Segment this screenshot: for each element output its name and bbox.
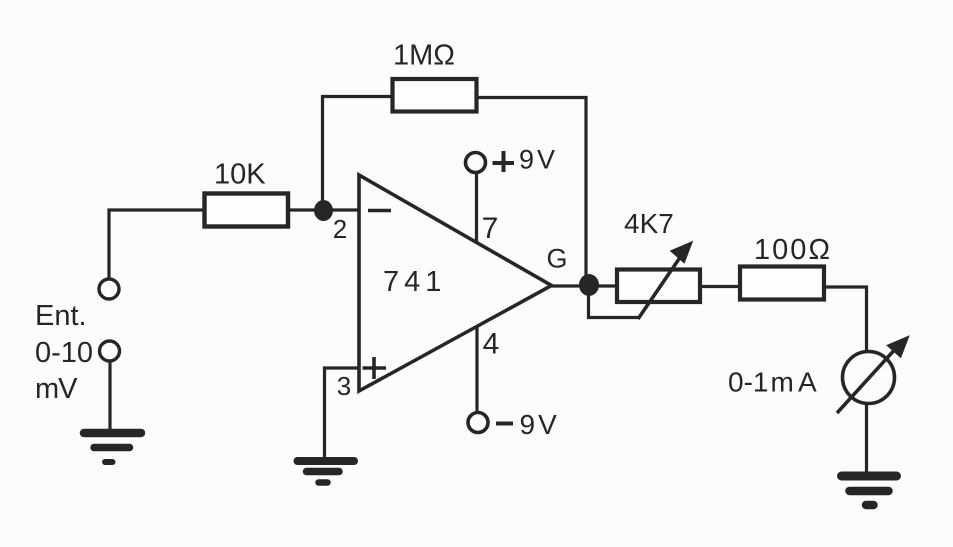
svg-text:3: 3 <box>337 371 351 401</box>
wire pin 3 to ground <box>325 368 360 458</box>
op-amp non-inverting input sign <box>363 357 387 379</box>
ground meter <box>842 476 897 505</box>
terminal +9V <box>466 153 486 173</box>
svg-text:2: 2 <box>333 214 347 244</box>
svg-text:1MΩ: 1MΩ <box>393 39 455 71</box>
svg-text:mV: mV <box>35 373 78 405</box>
minus sign of -9V <box>496 422 513 426</box>
op-amp U1 741 triangle <box>359 175 552 391</box>
wire pin 7 <box>475 173 478 243</box>
terminal input signal <box>99 279 119 299</box>
wire feedback left <box>323 97 393 203</box>
wire input return to ground <box>108 362 111 431</box>
ground input <box>84 433 141 462</box>
plus sign of +9V <box>493 151 515 172</box>
wire pin 4 <box>475 326 478 412</box>
wire 100 ohm to meter <box>824 287 867 352</box>
potentiometer 4K7 body <box>617 270 700 303</box>
svg-text:9V: 9V <box>520 409 560 440</box>
svg-text:741: 741 <box>383 266 446 298</box>
ground pin 3 <box>298 461 355 483</box>
svg-text:4: 4 <box>483 328 500 361</box>
svg-text:0-1mA: 0-1mA <box>728 367 817 398</box>
svg-text:G: G <box>546 244 567 274</box>
svg-text:4K7: 4K7 <box>624 208 674 239</box>
meter M1 body <box>843 352 895 404</box>
wire wiper tap to node G <box>589 294 639 318</box>
wire 10K to op-amp pin 2 <box>289 208 359 211</box>
wire op-amp output <box>552 284 618 287</box>
op-amp inverting input sign <box>368 209 391 213</box>
wire 4K7 to 100 ohm <box>700 285 740 288</box>
terminal -9V <box>468 413 488 433</box>
svg-text:7: 7 <box>482 212 499 245</box>
svg-text:0-10: 0-10 <box>35 337 93 369</box>
potentiometer 4K7 wiper arrow <box>638 243 692 320</box>
resistor 10K <box>205 194 289 227</box>
svg-text:100Ω: 100Ω <box>754 234 832 266</box>
resistor 1M ohm <box>393 79 477 112</box>
terminal input return <box>100 341 120 361</box>
svg-text:9V: 9V <box>519 145 558 175</box>
resistor 100 ohm <box>740 267 824 300</box>
node 2 junction <box>314 200 333 221</box>
svg-text:10K: 10K <box>214 159 266 191</box>
node G junction <box>579 274 599 296</box>
meter arrow <box>837 337 908 413</box>
svg-text:Ent.: Ent. <box>35 300 87 332</box>
wire input terminal to 10K <box>109 210 206 279</box>
wire feedback right <box>477 98 587 279</box>
wire meter to ground <box>865 404 868 473</box>
